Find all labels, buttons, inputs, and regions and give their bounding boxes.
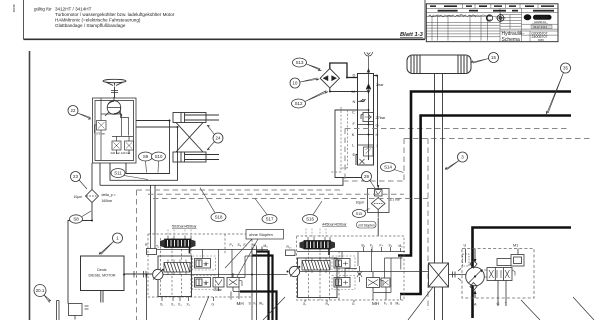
steering cylinder left 24	[173, 113, 219, 123]
drum block G T lines	[484, 274, 507, 307]
label 10	[290, 78, 319, 88]
label 15	[471, 53, 499, 64]
left page border	[29, 51, 31, 320]
drum block accumulator	[511, 249, 524, 267]
label S8	[70, 211, 92, 223]
svg-text:S16: S16	[306, 217, 314, 222]
svg-text:3412HT / 3414HT: 3412HT / 3414HT	[55, 7, 92, 12]
label 22	[68, 106, 91, 120]
wire: filter to block D	[330, 63, 358, 78]
engine aux pump bottom	[57, 301, 89, 320]
coupling gearbox X	[429, 263, 449, 287]
pump2 control valve stack	[302, 258, 330, 274]
thick line T2	[400, 116, 571, 295]
pump1 internal pipes	[157, 249, 268, 292]
pump2 servo dashed boxes	[332, 256, 355, 290]
suction filter 23 (10um 160bar)	[86, 190, 99, 203]
thick line T3 bottom right	[473, 228, 572, 319]
outer machine dashed boundary	[137, 190, 429, 320]
svg-text:Glattbandage / Stampffußbandag: Glattbandage / Stampffußbandage	[55, 23, 126, 28]
svg-text:29: 29	[364, 174, 369, 179]
label S12	[292, 91, 329, 108]
X plug below block	[360, 159, 365, 164]
manifold block outline	[358, 74, 374, 166]
copyright symbol	[486, 15, 492, 21]
label 3	[445, 152, 468, 170]
svg-text:M₉: M₉	[399, 244, 404, 248]
svg-text:27bar: 27bar	[376, 116, 386, 120]
svg-text:G: G	[376, 123, 379, 128]
title block	[426, 4, 558, 43]
pump2 top stubs	[364, 247, 401, 252]
pump1 proportional valve stack	[160, 236, 196, 254]
svg-text:S14: S14	[384, 165, 392, 170]
shaft pump2 to coupling	[300, 271, 432, 273]
svg-text:ohne Stopfen: ohne Stopfen	[249, 232, 273, 237]
label 29	[362, 172, 376, 189]
svg-text:G: G	[212, 303, 215, 307]
svg-text:U: U	[464, 244, 467, 248]
pump1 pilot risers	[168, 230, 191, 237]
pump2 charge relief	[367, 272, 391, 293]
svg-text:20.1: 20.1	[36, 288, 45, 293]
svg-text:20bar: 20bar	[214, 288, 223, 292]
pump1 boost check 20bar	[213, 273, 224, 291]
svg-text:M: M	[352, 89, 355, 94]
block internals	[358, 74, 371, 161]
pump1 R T port block	[147, 234, 157, 255]
label S14	[381, 163, 404, 173]
dashed S14 boundary	[343, 129, 592, 311]
svg-text:G: G	[352, 302, 355, 306]
label S17	[255, 199, 277, 224]
pump1 servo dashed boxes	[193, 256, 216, 290]
label 20.1	[34, 285, 51, 303]
svg-text:40202: 40202	[12, 4, 16, 13]
pump2 servo cylinder bottom	[334, 278, 350, 288]
svg-text:E: E	[353, 152, 356, 157]
pump2 pilot risers	[306, 229, 326, 238]
title block signature scribbles	[428, 15, 488, 17]
HAMM logo	[524, 14, 532, 20]
svg-text:10: 10	[293, 81, 298, 86]
svg-text:M1: M1	[513, 244, 518, 248]
pump group 1 dashed box	[148, 234, 252, 297]
svg-text:S17: S17	[266, 217, 274, 222]
pump1 servo cylinder top	[195, 259, 211, 269]
svg-text:HAMM: HAMM	[535, 15, 549, 20]
svg-text:M: M	[205, 263, 208, 267]
steering shock valves 240bar	[112, 136, 134, 154]
drum valve block dashed	[462, 249, 534, 299]
projection symbol	[497, 15, 504, 22]
aux drive down line	[146, 275, 148, 320]
pump2 main housing	[298, 258, 338, 298]
svg-text:HAMM AG: HAMM AG	[534, 20, 546, 24]
pump2 circle	[289, 266, 300, 277]
svg-text:N: N	[353, 99, 356, 104]
svg-text:22: 22	[71, 108, 76, 113]
diesel engine box	[81, 256, 125, 291]
steering to cylinder pipes	[136, 121, 178, 128]
svg-text:10µm: 10µm	[74, 195, 83, 199]
steering unit box 22	[93, 98, 137, 163]
wire: filter29 down to pump2	[377, 218, 379, 236]
pump1 control valve stack	[164, 260, 190, 276]
svg-text:S10: S10	[155, 154, 163, 159]
pump2 servo cylinder top	[334, 259, 350, 269]
pump1 circle	[153, 269, 164, 280]
svg-text:15: 15	[491, 55, 496, 60]
label 24	[207, 125, 223, 150]
title block grid columns	[432, 4, 538, 42]
wire: steering return to manifold	[100, 178, 343, 186]
label S9	[139, 152, 153, 173]
pump1 main housing	[158, 256, 192, 297]
svg-text:Turbomotor / wassergekühlter b: Turbomotor / wassergekühlter bzw. ladelu…	[55, 12, 175, 17]
steering cylinder right 24	[173, 152, 219, 162]
steering wheel	[103, 79, 126, 98]
thick line T1	[398, 92, 571, 256]
svg-text:gültig für: gültig für	[34, 7, 52, 12]
block pressure reducer 27bar	[358, 113, 374, 126]
block relief valve	[358, 134, 374, 160]
pump1 bottom stubs	[162, 287, 239, 301]
label S13	[293, 58, 322, 71]
svg-text:DIESEL MOTOR: DIESEL MOTOR	[89, 274, 116, 278]
wire: block C loop	[335, 110, 368, 178]
frame: top-left validity note box	[24, 0, 426, 39]
drive shaft line	[152, 274, 288, 276]
M9 stub	[400, 256, 402, 301]
mit Stopfen note	[357, 222, 377, 229]
svg-text:B: B	[376, 73, 379, 78]
svg-text:Schema: Schema	[502, 37, 521, 43]
filter 10 bypass diamond	[320, 69, 339, 88]
leader bottom far right	[573, 297, 594, 320]
label S16	[303, 201, 323, 224]
ohne Stopfen note	[246, 230, 284, 240]
svg-text:MH: MH	[372, 301, 379, 306]
drum block port labels	[464, 244, 519, 307]
svg-text:160bar: 160bar	[102, 199, 113, 203]
svg-text:HAMMtronic (=elektrische Fahrs: HAMMtronic (=elektrische Fahrsteuerung)	[55, 18, 141, 23]
note text	[34, 7, 175, 29]
wire: filter to block M	[330, 88, 358, 92]
pump2 check valves mid	[357, 266, 362, 282]
charge filter 29 assembly	[368, 186, 390, 218]
cylinder cross link	[176, 123, 203, 153]
pump1 bottom labels	[160, 302, 264, 307]
title block grid rows	[426, 8, 558, 36]
svg-text:2bar: 2bar	[376, 83, 384, 87]
drum block check valves	[470, 260, 477, 291]
thin lines between groups	[252, 247, 262, 320]
svg-text:S9: S9	[143, 154, 149, 159]
svg-text:S₈: S₈	[238, 243, 242, 247]
wire: block B down-line	[356, 76, 378, 187]
pump2 R port block	[286, 250, 296, 256]
svg-text:C: C	[352, 110, 355, 115]
pump2 internal pipes	[297, 249, 405, 293]
pump2 top port labels	[362, 244, 404, 249]
title block outer frame	[426, 4, 558, 42]
svg-text:175 bar: 175 bar	[96, 132, 106, 136]
svg-text:M: M	[205, 282, 208, 286]
svg-text:mit Stopfen: mit Stopfen	[359, 223, 375, 227]
svg-text:J: J	[376, 143, 378, 148]
roller drum 15	[407, 55, 471, 74]
orbitrol rotor	[105, 97, 122, 116]
label 1	[99, 233, 123, 255]
drum block pilot rect	[497, 259, 520, 266]
svg-text:K: K	[352, 132, 355, 137]
svg-text:S8: S8	[73, 217, 79, 222]
block port letters	[352, 73, 379, 158]
drum block U line	[463, 249, 470, 267]
label 23	[71, 172, 88, 190]
label S15	[353, 209, 370, 218]
svg-text:Deutz: Deutz	[97, 268, 107, 272]
svg-text:502bar\450bar: 502bar\450bar	[172, 225, 197, 229]
svg-text:MH: MH	[237, 301, 244, 306]
svg-text:S11: S11	[114, 171, 122, 176]
svg-text:240 bar 240 bar: 240 bar 240 bar	[111, 151, 131, 155]
svg-text:10µm: 10µm	[356, 201, 365, 205]
pump2 bottom stubs	[305, 288, 386, 303]
svg-text:S12: S12	[295, 101, 303, 106]
svg-text:S13: S13	[296, 60, 304, 65]
svg-text:S15: S15	[356, 212, 363, 216]
title block black filled cells	[430, 5, 554, 11]
svg-text:D: D	[353, 73, 356, 78]
leaders bottom center	[199, 287, 433, 320]
drum drive motor circle	[466, 249, 485, 299]
drum block 4-3 valve	[484, 268, 515, 281]
svg-text:3412 3414: 3412 3414	[533, 25, 548, 29]
steering return lines	[100, 121, 178, 235]
dashed pilot lines S14	[331, 107, 348, 172]
thick bundle lines center	[240, 252, 277, 320]
pump1 charge relief	[227, 273, 242, 291]
svg-text:delta_p =: delta_p =	[102, 193, 116, 197]
svg-text:35: 35	[563, 66, 568, 71]
wire: steering feed line	[68, 163, 92, 304]
label S11	[111, 169, 148, 180]
steering internal pipes	[101, 98, 129, 160]
svg-text:M₉: M₉	[396, 302, 401, 306]
note leaders	[225, 239, 258, 277]
svg-text:M₈: M₈	[264, 244, 269, 248]
svg-text:P₈: P₈	[230, 243, 234, 247]
label S18	[200, 188, 226, 222]
coupling ticks	[449, 269, 467, 281]
svg-text:6065: 6065	[538, 38, 544, 42]
svg-text:H: H	[376, 132, 379, 137]
svg-text:445bar\420bar: 445bar\420bar	[322, 223, 347, 227]
pump1 servo cylinder bottom	[195, 278, 211, 288]
pump2 bottom labels	[303, 302, 400, 307]
pump group 2 dashed box	[297, 236, 405, 300]
leader to drum block	[521, 300, 540, 320]
engine shaft	[101, 274, 152, 303]
roller stem lines	[435, 74, 443, 320]
label S10	[152, 152, 166, 173]
svg-text:F₊: F₊	[380, 244, 384, 248]
svg-text:R₁₀: R₁₀	[287, 245, 292, 249]
pump1 top port labels	[230, 243, 269, 248]
breather on block top	[365, 52, 373, 74]
svg-text:Blatt 1-3: Blatt 1-3	[400, 32, 424, 38]
pump2 proportional valve stack	[300, 237, 336, 255]
svg-text:23: 23	[73, 174, 78, 179]
svg-text:W₈: W₈	[253, 243, 258, 247]
steering relief valve 175bar	[95, 121, 107, 134]
engine coupling ticks	[134, 271, 146, 278]
svg-text:24: 24	[216, 136, 221, 141]
svg-text:S18: S18	[215, 215, 223, 220]
label 35	[546, 63, 570, 114]
svg-text:W₈: W₈	[259, 302, 264, 306]
